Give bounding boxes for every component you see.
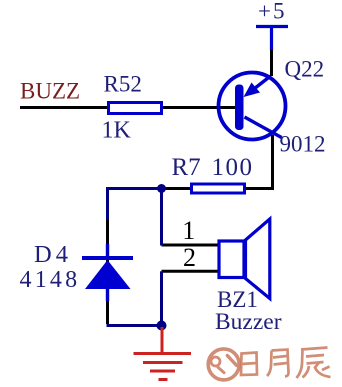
svg-text:100: 100 (212, 154, 254, 181)
svg-text:D4: D4 (34, 241, 72, 268)
svg-text:Q22: Q22 (285, 57, 325, 82)
svg-text:Buzzer: Buzzer (215, 309, 282, 335)
svg-text:R7: R7 (172, 154, 201, 181)
svg-text:1K: 1K (102, 118, 132, 144)
svg-text:+5: +5 (258, 0, 286, 24)
svg-text:BUZZ: BUZZ (20, 79, 80, 104)
svg-text:2: 2 (183, 243, 196, 272)
svg-text:R52: R52 (104, 72, 142, 97)
svg-text:9012: 9012 (280, 132, 326, 157)
svg-text:1: 1 (182, 216, 195, 245)
svg-text:4148: 4148 (20, 267, 81, 293)
